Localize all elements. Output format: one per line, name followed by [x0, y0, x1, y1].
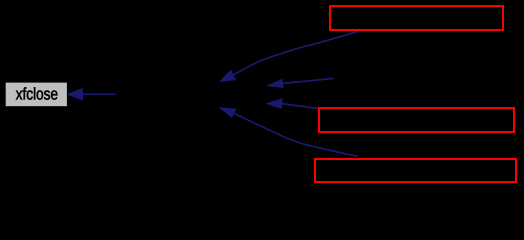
node box bottom (red, truncated caller) — [315, 159, 516, 182]
edge d: middle box -> central node — [267, 99, 318, 109]
edge b: top box -> central node — [220, 32, 358, 82]
edge a: central node -> xfclose — [68, 89, 116, 100]
edge c: hidden right node -> central node — [268, 78, 334, 87]
node box top (red, truncated caller) — [330, 6, 503, 30]
node xfclose (current node, grey) — [6, 83, 67, 107]
edge e: bottom box -> central node — [220, 108, 358, 157]
node box middle (red, truncated caller) — [319, 108, 514, 132]
